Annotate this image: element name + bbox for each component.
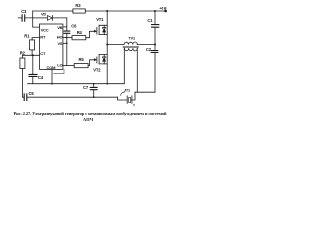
svg-text:VT2: VT2 [93,67,101,72]
svg-text:TV1: TV1 [129,37,135,41]
wire top rail right segment [85,10,164,12]
wire midpoint to transformer [107,44,124,46]
svg-text:VB: VB [57,25,62,30]
svg-text:C2: C2 [146,47,152,52]
wire piezo right connection [131,92,135,100]
svg-text:CT: CT [40,51,46,56]
node COM-bus junction [51,83,53,85]
wire right rail [154,11,156,92]
wire R2 down to C5 [22,69,24,98]
node C7 return junction [93,96,95,98]
transistor VT1 gate bar [96,27,98,34]
svg-text:R5: R5 [79,57,85,62]
resistor R2 [20,58,25,69]
svg-text:RT: RT [40,34,46,39]
transistor VT2 channel bar [98,54,100,64]
svg-text:R4: R4 [77,30,83,35]
svg-text:JT1: JT1 [124,88,130,92]
capacitor C3 [18,17,33,19]
svg-text:R2: R2 [20,50,26,55]
svg-text:VT1: VT1 [96,17,104,22]
svg-text:COM: COM [47,65,57,70]
svg-text:C4: C4 [38,75,44,80]
capacitor C7 [93,84,95,98]
svg-text:R1: R1 [24,33,30,38]
capacitor C6 [66,34,68,66]
wire ground bus [28,83,125,85]
piezo transducer JT1 [127,96,132,103]
capacitor C2 [151,51,158,53]
wire top rail left segment [33,10,73,12]
transistor VT1 gate arrow [94,30,96,32]
svg-text:C5: C5 [29,91,35,96]
speck below piezo [133,104,134,105]
node VS junction [66,42,68,44]
resistor R3 [73,9,85,13]
wire HO pin [63,37,72,39]
wire R1 bottom to CT [31,50,33,55]
svg-text:C7: C7 [83,85,89,90]
resistor R5 [74,64,88,68]
wire CT pin [22,55,39,58]
capacitor C5 [27,96,117,98]
wire RT pin [32,38,39,40]
wire LO pin [63,64,74,66]
resistor R4 [72,36,86,40]
transistor VT1 drain/source horizontals [99,25,107,34]
svg-text:+6 В: +6 В [159,6,167,10]
JT1 pointer curve [121,92,125,96]
node half-bridge midpoint [106,44,108,46]
transistor VT2 gate arrow [94,59,96,61]
transistor VT1 channel bar [98,25,100,34]
capacitor C4 [32,55,34,83]
wire VD1 cathode down to VB node [66,18,68,31]
wire VS pin [63,42,67,44]
wire R4 to VT1 gate [86,31,94,37]
svg-text:VD: VD [41,12,46,17]
wire VB pin [63,26,67,28]
node HO-C6 junction [66,37,68,39]
transistor VT2 gate bar [96,57,98,63]
node rail-top junction [154,10,156,12]
IC bottom-right jog [54,69,64,73]
svg-text:АПЧ: АПЧ [83,117,94,122]
body diode VT1 [103,25,106,28]
svg-text:HO: HO [57,35,63,40]
transformer TV1 secondary winding [124,48,137,51]
capacitor C1 [152,25,159,28]
node VT1 drain-rail junction [106,10,108,12]
wire VT1 drain line [106,11,108,45]
diode VD1 [33,17,48,19]
wire R5 to VT2 gate [88,60,94,66]
node VT2 source-bus junction [106,83,108,85]
svg-text:C6: C6 [71,24,77,29]
wire secondary left leg to ground bus [123,48,125,83]
wire COM pin [51,69,53,83]
svg-text:LO: LO [57,63,62,68]
terminal +6V [164,10,167,13]
svg-text:C1: C1 [147,18,153,23]
op-amp U1 driver IC box [40,24,63,69]
node C7 bus junction [93,83,95,85]
svg-text:Рис. 2.27. Ультразвуковой гене: Рис. 2.27. Ультразвуковой генератор с не… [14,111,167,116]
transformer core [123,46,139,47]
wire secondary right leg down [136,48,138,92]
svg-text:R3: R3 [75,3,81,8]
node CT junction [32,54,34,56]
wire right loop horizontal [135,91,155,93]
transistor VT2 drain/source horizontals [99,54,107,64]
resistor R1 [30,40,35,50]
transformer TV1 primary winding [124,42,137,45]
svg-text:C3: C3 [21,9,27,14]
svg-text:VCC: VCC [41,28,49,33]
wire return jog to piezo [118,97,127,100]
node rail-primary junction [154,44,156,46]
body diode VT2 [103,54,106,57]
svg-text:VS: VS [57,41,62,46]
wire VT2 drain/source line [106,45,108,84]
wire VCC feed vertical [33,11,40,27]
